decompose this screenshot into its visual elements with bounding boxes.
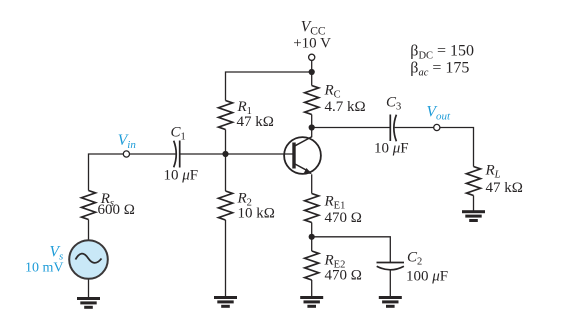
- node Vout terminal: [434, 124, 440, 130]
- wire C1 to base: [180, 153, 295, 155]
- wire Rs to source: [88, 220, 90, 241]
- wire Vcc terminal to rail: [311, 61, 313, 73]
- node Vin terminal: [123, 151, 129, 157]
- svg-text:600 Ω: 600 Ω: [98, 202, 135, 218]
- capacitor C2: [377, 263, 405, 270]
- junction top rail / Vcc: [309, 69, 315, 75]
- wire RE2 to ground: [311, 280, 313, 296]
- wire node to R2: [225, 154, 227, 191]
- ground (R2): [214, 296, 237, 308]
- wire R2 to ground: [225, 220, 227, 296]
- wire top rail with corner down to R1: [226, 72, 312, 101]
- wire node to RE2: [311, 237, 313, 251]
- junction collector node: [309, 124, 315, 130]
- resistor RE1: [305, 194, 319, 223]
- resistor R2: [219, 191, 233, 220]
- svg-text:10 kΩ: 10 kΩ: [238, 206, 275, 222]
- wire source to ground: [88, 279, 90, 297]
- svg-text:10 mV: 10 mV: [25, 261, 64, 276]
- terminal Vcc: [309, 54, 315, 60]
- resistor RL: [467, 167, 481, 196]
- junction base node: [222, 151, 228, 157]
- capacitor C3: [390, 115, 396, 142]
- svg-text:47 kΩ: 47 kΩ: [237, 114, 274, 130]
- transistor Q1 (NPN): [284, 137, 321, 175]
- ground (C2): [379, 296, 402, 308]
- wire R1 to base node: [225, 130, 227, 155]
- wire emitter node to C2 corner: [312, 237, 391, 262]
- svg-text:10 μF: 10 μF: [374, 141, 409, 157]
- svg-text:+10 V: +10 V: [293, 36, 331, 52]
- ground (Vs): [77, 297, 100, 309]
- capacitor C1: [174, 141, 180, 168]
- resistor Rs: [82, 191, 96, 220]
- svg-text:10 μF: 10 μF: [164, 168, 199, 184]
- resistor RC: [305, 86, 319, 115]
- wire C2 to ground: [389, 270, 391, 296]
- svg-text:470 Ω: 470 Ω: [325, 268, 362, 284]
- wire emitter to RE1: [311, 174, 313, 193]
- ground (RE2): [300, 296, 323, 308]
- resistor R1: [219, 101, 233, 130]
- wire C3 to load corner down to RL: [395, 128, 474, 167]
- wire RE1 to emitter node: [311, 223, 313, 237]
- svg-text:4.7 kΩ: 4.7 kΩ: [325, 99, 366, 115]
- wire collector: [311, 128, 313, 138]
- wire RL to ground: [473, 196, 475, 211]
- svg-text:470 Ω: 470 Ω: [325, 210, 362, 226]
- svg-text:100 μF: 100 μF: [406, 269, 448, 285]
- source Vs (sine source): [69, 240, 108, 279]
- resistor RE2: [305, 251, 319, 280]
- ground (RL): [462, 210, 485, 222]
- wire input corner to C1: [89, 154, 176, 191]
- wire collector row to C3: [312, 127, 391, 129]
- wire rail to RC: [311, 72, 313, 86]
- svg-text:47 kΩ: 47 kΩ: [486, 180, 523, 196]
- junction emitter node: [309, 234, 315, 240]
- wire RC to collector node: [311, 115, 313, 128]
